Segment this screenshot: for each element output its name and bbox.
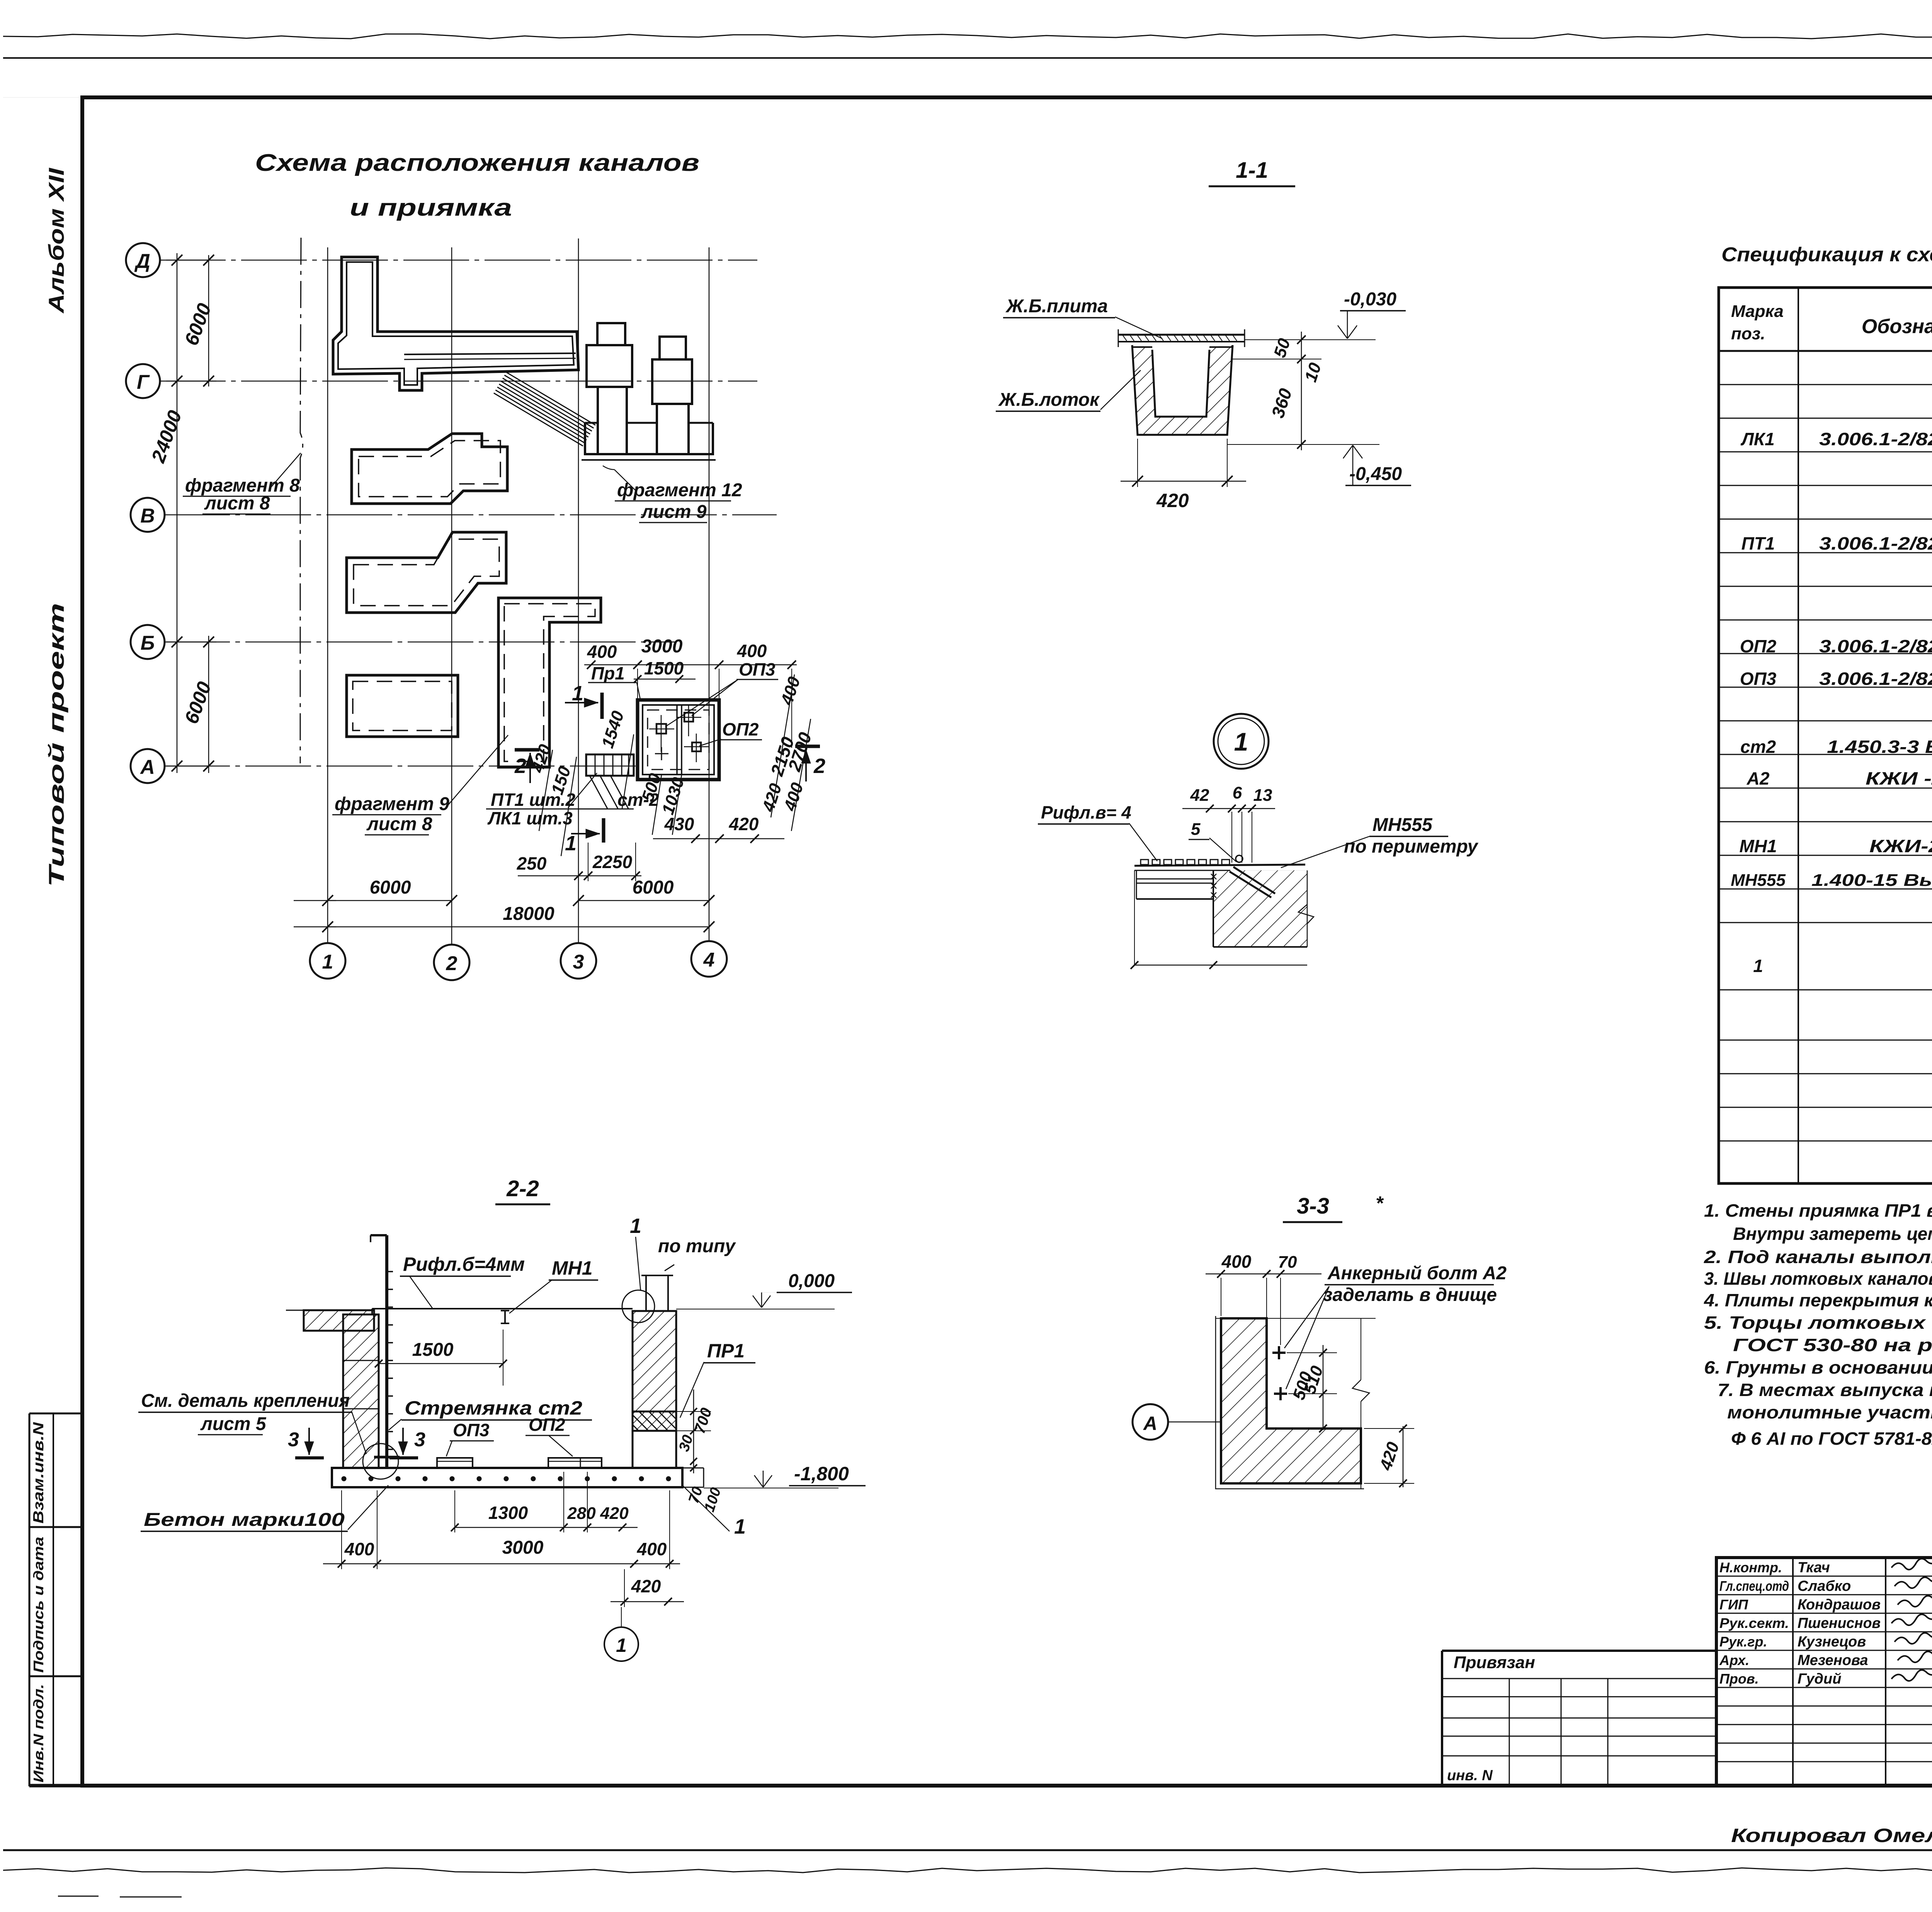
- svg-text:и приямка: и приямка: [350, 194, 512, 221]
- svg-text:поз.: поз.: [1731, 324, 1765, 343]
- svg-text:Марка: Марка: [1731, 302, 1784, 321]
- svg-text:13: 13: [1253, 786, 1272, 805]
- svg-text:420: 420: [1156, 490, 1189, 511]
- 2-2 right wall upper stubs: [645, 1275, 647, 1311]
- svg-text:Копировал Омельченко: Копировал Омельченко: [1731, 1825, 1932, 1846]
- svg-text:лист 8: лист 8: [204, 493, 270, 514]
- svg-text:Внутри затереть цементным раст: Внутри затереть цементным раствором сост…: [1733, 1224, 1932, 1244]
- 2-2 bottom node circle 1: [604, 1627, 638, 1661]
- paper bottom torn edge: [3, 1868, 1932, 1873]
- svg-text:70: 70: [1278, 1253, 1297, 1272]
- grid bubble В: [131, 498, 165, 532]
- grid bubble Д: [126, 243, 160, 277]
- svg-text:430: 430: [664, 814, 694, 834]
- channel fragment B inner dashed: [359, 441, 500, 497]
- table column lines: [1798, 288, 1799, 1183]
- svg-text:Привязан: Привязан: [1454, 1653, 1535, 1672]
- svg-text:Взам.инв.N: Взам.инв.N: [31, 1422, 47, 1524]
- node 1 riffled plate: [1134, 865, 1305, 866]
- title block: Привязан box: [1442, 1650, 1716, 1652]
- 2-2 post bottom circle: [363, 1444, 398, 1479]
- plan grid horizontal line А: [164, 766, 638, 767]
- svg-text:Гудий: Гудий: [1798, 1671, 1841, 1687]
- svg-text:400: 400: [344, 1539, 374, 1559]
- grid bubble 4: [691, 941, 727, 977]
- paper top torn edge: [3, 34, 1932, 39]
- svg-text:3: 3: [573, 951, 584, 973]
- tower B column: [656, 404, 658, 454]
- svg-text:1: 1: [572, 682, 583, 705]
- svg-text:лист 9: лист 9: [641, 502, 707, 522]
- svg-text:280: 280: [567, 1504, 596, 1523]
- left margin stamp boxes: [29, 1413, 82, 1415]
- svg-text:ПР1: ПР1: [707, 1340, 745, 1362]
- section mark 2-2 left: [515, 748, 539, 752]
- svg-text:ОП3: ОП3: [453, 1420, 490, 1440]
- towers base tray: [585, 423, 713, 454]
- grid bubble А: [131, 749, 165, 783]
- channel fragment C inner dashed: [354, 539, 499, 606]
- svg-text:А2: А2: [1747, 768, 1770, 788]
- svg-text:Рифл.в= 4: Рифл.в= 4: [1041, 802, 1131, 822]
- cover plates strip ПТ1/ЛК1: [586, 754, 634, 776]
- pit ПР1 inner dashed block line: [648, 710, 709, 770]
- channel fragment E (rectangle) outer: [347, 675, 458, 737]
- svg-text:1500: 1500: [644, 658, 684, 678]
- outer border bottom line: [3, 1849, 1932, 1851]
- svg-text:2. Под каналы выполнить песча: 2. Под каналы выполнить песчаную подгото…: [1704, 1247, 1932, 1267]
- svg-text:1300: 1300: [488, 1503, 528, 1523]
- svg-text:2: 2: [446, 952, 457, 975]
- channel fragment B outer: [352, 434, 507, 504]
- svg-text:3.006.1-2/82 Вып.1 -2: 3.006.1-2/82 Вып.1 -2: [1819, 669, 1932, 689]
- svg-text:См. деталь крепления: См. деталь крепления: [141, 1391, 350, 1411]
- plan grid horizontal line Г: [160, 381, 757, 382]
- svg-text:Д: Д: [134, 250, 150, 272]
- svg-text:МН555: МН555: [1372, 815, 1433, 835]
- svg-text:ОП2: ОП2: [1740, 636, 1777, 656]
- pit ПР1 inner wall: [643, 705, 714, 775]
- 2-2 left top slab: [304, 1310, 374, 1331]
- tower A small top block: [597, 323, 625, 345]
- 3-3 outer thin offset: [1216, 1316, 1364, 1489]
- svg-text:-0,450: -0,450: [1349, 464, 1402, 484]
- pipe bundle (diagonal lines to фрагмент 12): [506, 372, 595, 425]
- section mark 1-1 top: [600, 693, 604, 719]
- svg-text:250: 250: [517, 853, 547, 873]
- 3-3 grid bubble А: [1133, 1404, 1168, 1440]
- node 1 weld marks: [1211, 874, 1216, 879]
- frame bottom extension over left boxes: [29, 1784, 83, 1788]
- table header row line: [1719, 350, 1932, 352]
- svg-text:3000: 3000: [502, 1537, 544, 1558]
- support pad ОП2 in pit: [692, 742, 701, 751]
- 2-2 ladder post ст2: [371, 1234, 387, 1236]
- plan grid horizontal line Б: [164, 642, 676, 643]
- 3-3 right edge with break: [1361, 1318, 1361, 1380]
- svg-text:ОП3: ОП3: [739, 659, 776, 679]
- svg-text:ОП2: ОП2: [529, 1415, 565, 1435]
- svg-text:0,000: 0,000: [788, 1271, 835, 1291]
- channel A middle partition: [404, 353, 576, 354]
- 2-2 right wall block course (ПР1): [633, 1411, 676, 1431]
- svg-text:400: 400: [587, 642, 617, 662]
- node 1 bubble (double circle): [1214, 714, 1269, 769]
- svg-text:фрагмент 9: фрагмент 9: [335, 794, 449, 814]
- 2-2 level -1.800: [704, 1488, 838, 1488]
- svg-text:по периметру: по периметру: [1344, 836, 1479, 857]
- svg-text:ЛК1 шт.3: ЛК1 шт.3: [487, 808, 573, 828]
- svg-text:Подпись и дата: Подпись и дата: [31, 1537, 46, 1673]
- svg-text:В: В: [140, 505, 155, 527]
- pit dimension 1500: [634, 679, 696, 680]
- pit divider wall: [676, 705, 678, 775]
- 2-2 right wall lower part: [633, 1431, 676, 1468]
- 2-2 right wall hatched column: [633, 1311, 676, 1411]
- plan left dimension line 24000: [177, 253, 178, 773]
- svg-text:-0,030: -0,030: [1344, 289, 1396, 310]
- tower A mid block: [587, 345, 632, 387]
- svg-text:КЖИ -25.00: КЖИ -25.00: [1866, 768, 1932, 788]
- 2-2 left wall hatched: [343, 1314, 379, 1468]
- tower B mid block: [652, 359, 692, 404]
- pit centre cross marks: [655, 753, 668, 754]
- 2-2 pit rim line: [372, 1308, 633, 1309]
- svg-text:лист 8: лист 8: [366, 814, 432, 834]
- grid bubble 2: [434, 945, 469, 980]
- title block signature rows: [1716, 1576, 1932, 1577]
- tower A column: [597, 387, 599, 454]
- table row lines: [1719, 384, 1932, 385]
- section mark 1-1 bottom: [602, 818, 605, 843]
- section mark 2-2 right: [795, 745, 820, 748]
- svg-text:ГОСТ 530-80 на растворе мар: ГОСТ 530-80 на растворе марки 50.: [1733, 1335, 1932, 1355]
- svg-text:Б: Б: [141, 632, 155, 654]
- svg-text:ПТ1: ПТ1: [1742, 533, 1775, 553]
- svg-text:Кондрашов: Кондрашов: [1798, 1597, 1881, 1613]
- svg-text:1-1: 1-1: [1236, 158, 1268, 183]
- svg-text:Слабко: Слабко: [1798, 1578, 1851, 1594]
- svg-text:1.450.3-3 Вып.1,ч.1: 1.450.3-3 Вып.1,ч.1: [1827, 737, 1932, 757]
- svg-text:Гл.спец.отд: Гл.спец.отд: [1719, 1578, 1789, 1594]
- svg-text:3. Швы лотковых каналов выполн: 3. Швы лотковых каналов выполнить соглас…: [1704, 1268, 1932, 1289]
- right vertical dim line (50/360/10): [1301, 332, 1302, 450]
- 2-2 МН1 embedded mark: [501, 1310, 509, 1311]
- grid bubble 3: [561, 943, 596, 979]
- svg-text:Ткач: Ткач: [1798, 1560, 1830, 1576]
- svg-text:монолитные участки из бетона: монолитные участки из бетона марки 200. …: [1727, 1402, 1932, 1422]
- svg-text:МН1: МН1: [1739, 836, 1777, 856]
- support pad ОП3 in pit (second): [684, 713, 693, 722]
- node 1 anchor strap МН555: [1233, 867, 1275, 894]
- grid bubble Б: [131, 625, 165, 659]
- svg-text:ОП3: ОП3: [1740, 669, 1777, 689]
- svg-text:по типу: по типу: [658, 1236, 736, 1257]
- svg-text:ОП2: ОП2: [722, 719, 759, 739]
- svg-text:Рук.гр.: Рук.гр.: [1719, 1634, 1767, 1650]
- svg-text:Ж.Б.плита: Ж.Б.плита: [1005, 296, 1108, 317]
- svg-text:1: 1: [322, 951, 333, 973]
- svg-text:Пр1: Пр1: [591, 663, 625, 683]
- specification table outer frame: [1719, 288, 1932, 1183]
- svg-text:1: 1: [565, 832, 577, 855]
- svg-text:-1,800: -1,800: [794, 1463, 849, 1485]
- svg-text:Бетон марки100: Бетон марки100: [144, 1510, 345, 1530]
- plan grid vertical line 3: [578, 238, 579, 943]
- svg-text:1: 1: [1234, 727, 1248, 756]
- svg-text:Пшениснов: Пшениснов: [1798, 1615, 1881, 1631]
- svg-text:400: 400: [637, 1539, 667, 1559]
- svg-text:6000: 6000: [370, 877, 411, 898]
- grid bubble 1: [310, 943, 345, 979]
- svg-text:Кузнецов: Кузнецов: [1798, 1634, 1866, 1650]
- svg-text:400: 400: [737, 641, 767, 661]
- pit lower-left slanted dimensions: [539, 750, 553, 831]
- plan grid horizontal line Д: [160, 260, 757, 261]
- plan grid horizontal line В: [164, 514, 777, 516]
- svg-text:инв. N: инв. N: [1447, 1767, 1493, 1784]
- 2-2 right side small dims: [693, 1389, 694, 1473]
- pit ПР1 outer wall: [638, 700, 719, 780]
- dim 420 under trough: [1137, 439, 1138, 487]
- svg-text:6. Грунты в основании каналов: 6. Грунты в основании каналов и приямков…: [1704, 1357, 1932, 1377]
- svg-text:А: А: [139, 756, 155, 778]
- 2-2 dim 1500: [379, 1363, 503, 1364]
- channel outline A (top channel run) outer: [333, 257, 578, 390]
- plan grid vertical line 4: [709, 247, 710, 941]
- 2-2 support pads on slab: [437, 1458, 473, 1468]
- svg-text:Спецификация к схеме расположе: Спецификация к схеме расположения канало…: [1721, 243, 1932, 266]
- svg-text:Мезенова: Мезенова: [1798, 1652, 1868, 1669]
- svg-text:Г: Г: [137, 371, 150, 393]
- fragment boundary line (фрагмент 8): [300, 238, 303, 763]
- plan left dimension line 6000 (Б-А): [208, 636, 209, 773]
- svg-text:1. Стены приямка ПР1 выполнить: 1. Стены приямка ПР1 выполнить из блоков…: [1704, 1200, 1932, 1221]
- svg-text:2-2: 2-2: [506, 1176, 539, 1201]
- svg-text:3.006.1-2/82 Вып.1 -1: 3.006.1-2/82 Вып.1 -1: [1819, 429, 1932, 449]
- section 1-1 cover plate: [1118, 334, 1245, 336]
- svg-text:Ф 6 АI по ГОСТ 5781-82.: Ф 6 АI по ГОСТ 5781-82.: [1731, 1428, 1932, 1449]
- svg-text:Пров.: Пров.: [1719, 1671, 1759, 1687]
- svg-text:6: 6: [1233, 783, 1242, 802]
- svg-text:лист 5: лист 5: [200, 1414, 267, 1434]
- svg-text:ст-2: ст-2: [617, 790, 659, 810]
- plan left dimension line 6000 (Д-Г): [208, 255, 209, 386]
- svg-text:400: 400: [1221, 1251, 1252, 1272]
- tower B small top block: [660, 337, 686, 359]
- svg-text:Рифл.б=4мм: Рифл.б=4мм: [403, 1253, 525, 1275]
- trough wall hatch: [1132, 345, 1233, 435]
- svg-text:3.006.1-2/82 Вып.1 -2: 3.006.1-2/82 Вып.1 -2: [1819, 636, 1932, 656]
- svg-text:Обозначение: Обозначение: [1862, 315, 1932, 338]
- 3-3 L-wall hatched: [1221, 1318, 1361, 1483]
- svg-text:1: 1: [616, 1634, 627, 1656]
- plan grid vertical line 1: [327, 247, 328, 943]
- channel outline A inner wall line: [338, 262, 574, 385]
- node 1 concrete block hatched: [1213, 870, 1307, 947]
- svg-text:1.400-15 Вып.1 550-06: 1.400-15 Вып.1 550-06: [1811, 871, 1932, 890]
- outer border top line: [3, 57, 1932, 59]
- svg-text:5. Торцы лотковых каналов з: 5. Торцы лотковых каналов заложить кирпи…: [1704, 1313, 1932, 1333]
- node 1 channel wall left part: [1136, 879, 1213, 880]
- channel fragment E inner dashed: [353, 681, 452, 730]
- pit right slanted dimension lines: [771, 674, 794, 817]
- svg-text:420: 420: [631, 1576, 661, 1596]
- svg-text:Рук.сект.: Рук.сект.: [1719, 1615, 1789, 1631]
- svg-text:Типовой проект: Типовой проект: [44, 603, 68, 887]
- svg-text:Ж.Б.лоток: Ж.Б.лоток: [998, 390, 1100, 410]
- node 1 dims 42/6/13: [1182, 808, 1275, 809]
- svg-text:МН1: МН1: [552, 1257, 593, 1279]
- svg-text:1: 1: [734, 1515, 746, 1538]
- svg-text:6000: 6000: [633, 877, 674, 898]
- svg-text:Анкерный болт А2: Анкерный болт А2: [1327, 1263, 1507, 1284]
- support pad ОП3 in pit: [656, 724, 666, 734]
- node 1 bottom extent line: [1134, 870, 1135, 965]
- hatch under strip: [590, 776, 607, 809]
- svg-text:1: 1: [1753, 956, 1763, 976]
- channel fragment D (Γ-shape) outer: [498, 598, 601, 767]
- grid bubble Г: [126, 364, 160, 398]
- channel fragment C outer: [347, 532, 506, 613]
- 3-3 vertical dim 420: [1403, 1426, 1404, 1487]
- channel fragment D inner dashed: [504, 604, 595, 761]
- svg-text:*: *: [1376, 1192, 1384, 1214]
- svg-text:Н.контр.: Н.контр.: [1719, 1560, 1782, 1575]
- 3-3 vertical dim 500/510: [1323, 1345, 1324, 1430]
- svg-text:МН555: МН555: [1731, 871, 1786, 890]
- svg-text:2: 2: [514, 754, 526, 778]
- svg-text:1500: 1500: [412, 1340, 454, 1360]
- svg-text:ЛК1: ЛК1: [1740, 429, 1774, 449]
- svg-text:Схема расположения каналов: Схема расположения каналов: [255, 150, 699, 176]
- svg-text:3.006.1-2/82 Вып.1 -2: 3.006.1-2/82 Вып.1 -2: [1819, 533, 1932, 553]
- svg-text:3: 3: [288, 1428, 299, 1451]
- svg-text:1: 1: [630, 1214, 641, 1238]
- plan grid vertical line 2: [451, 247, 452, 945]
- svg-text:7. В местах выпуска трубопрово: 7. В местах выпуска трубопроводов из кан…: [1718, 1380, 1932, 1400]
- svg-text:Арх.: Арх.: [1719, 1652, 1749, 1668]
- svg-text:420: 420: [600, 1504, 629, 1523]
- section 1-1 trough (лоток): [1132, 345, 1233, 435]
- svg-text:420: 420: [729, 814, 759, 834]
- svg-text:5: 5: [1191, 820, 1201, 839]
- 2-2 node 1 reference circle: [622, 1290, 655, 1323]
- svg-text:Альбом ХII: Альбом ХII: [44, 167, 68, 314]
- svg-text:ПТ1 шт.2: ПТ1 шт.2: [491, 790, 576, 810]
- svg-text:2: 2: [813, 754, 825, 778]
- svg-text:ГИП: ГИП: [1719, 1597, 1748, 1612]
- svg-text:А: А: [1143, 1413, 1157, 1434]
- svg-text:3: 3: [414, 1428, 425, 1451]
- svg-text:4. Плиты перекрытия каналов ук: 4. Плиты перекрытия каналов укладывать н…: [1704, 1290, 1932, 1310]
- 3-3 anchor bolts: [1278, 1346, 1280, 1359]
- svg-text:Инв.N подл.: Инв.N подл.: [31, 1684, 46, 1783]
- svg-text:2250: 2250: [592, 852, 633, 872]
- title block outer: [1716, 1558, 1932, 1786]
- svg-text:3000: 3000: [641, 636, 683, 657]
- 3-3 top extension line: [1216, 1318, 1376, 1319]
- svg-text:18000: 18000: [503, 904, 554, 924]
- 2-2 level 0.000: [676, 1309, 835, 1309]
- svg-text:4: 4: [703, 949, 715, 971]
- svg-text:заделать в днище: заделать в днище: [1323, 1285, 1497, 1305]
- svg-text:ст2: ст2: [1740, 737, 1776, 757]
- 2-2 bottom slab: [332, 1468, 682, 1487]
- pit top dimension line 400/3000/400: [584, 664, 797, 666]
- svg-text:КЖИ-26.00: КЖИ-26.00: [1869, 836, 1932, 856]
- svg-text:42: 42: [1190, 786, 1209, 805]
- svg-text:3-3: 3-3: [1297, 1194, 1329, 1219]
